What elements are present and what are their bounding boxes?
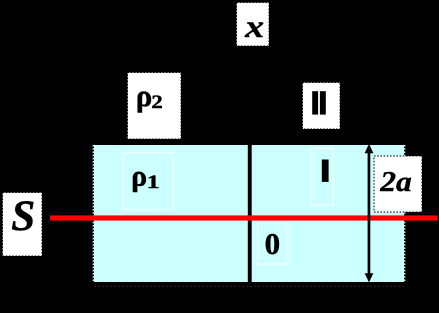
svg-text:0: 0 (265, 226, 281, 261)
slab (charged slab, light cyan) (94, 145, 404, 282)
divider (vertical boundary between slab halves) (248, 145, 252, 282)
svg-text:2: 2 (151, 92, 162, 113)
box x (white label box) (237, 3, 270, 47)
box II (white label box, region II) (303, 83, 341, 130)
slab left serrated edge (92, 145, 94, 282)
slab right serrated edge (404, 145, 406, 282)
box rho1 (outlined label box on slab) (124, 153, 174, 210)
box 2a (white label box) (374, 156, 422, 212)
box rho2 (white label box) (128, 73, 182, 140)
svg-text:x: x (244, 8, 264, 44)
svg-text:ρ: ρ (131, 159, 147, 192)
red line (line S through slab) (50, 215, 438, 220)
slab bottom selection dashes (94, 286, 404, 288)
label I (bar) (322, 160, 329, 182)
svg-text:1: 1 (147, 172, 160, 193)
dimension arrow 2a (double-headed vertical) (365, 144, 374, 283)
box I (outlined label box, region I) (312, 149, 334, 206)
svg-text:ρ: ρ (136, 78, 153, 113)
svg-text:2a: 2a (379, 166, 412, 198)
label II (bars) (312, 91, 318, 114)
svg-text:S: S (11, 193, 35, 240)
box 0 (outlined label box at origin) (258, 224, 288, 265)
box S (white label box) (3, 193, 43, 257)
